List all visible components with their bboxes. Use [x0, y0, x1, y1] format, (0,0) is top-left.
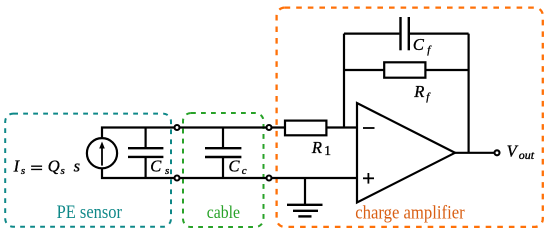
svg-text:out: out: [519, 148, 535, 162]
svg-text:charge amplifier: charge amplifier: [355, 204, 465, 224]
svg-text:C: C: [413, 35, 425, 54]
svg-text:C: C: [229, 156, 241, 175]
svg-text:cable: cable: [207, 202, 240, 222]
svg-text:C: C: [150, 157, 162, 176]
svg-text:s: s: [165, 165, 169, 177]
svg-text:s: s: [74, 156, 80, 175]
svg-text:R: R: [311, 138, 322, 157]
svg-text:c: c: [242, 165, 247, 177]
svg-text:s: s: [21, 165, 25, 177]
svg-text:Q: Q: [48, 156, 60, 175]
svg-text:1: 1: [324, 143, 331, 158]
svg-text:s: s: [61, 165, 65, 177]
svg-text:PE sensor: PE sensor: [57, 203, 122, 223]
svg-text:R: R: [413, 82, 424, 101]
